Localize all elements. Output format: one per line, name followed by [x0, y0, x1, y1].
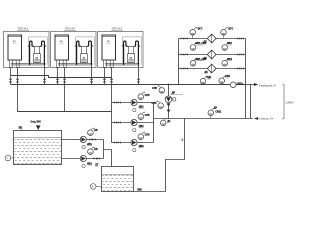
branch2 valves [114, 121, 117, 123]
feed funnel [36, 125, 41, 129]
rail3 outlet valves [237, 67, 240, 69]
svg-text:НВ: НВ [94, 148, 98, 151]
pump ЦВ2 [131, 119, 137, 125]
gauge above rail1 left [192, 35, 194, 39]
svg-text:СУВ: СУВ [152, 87, 157, 90]
gauge on bus right [230, 82, 236, 88]
pump НВ2 suction [62, 158, 81, 160]
tank level gauge [11, 157, 14, 159]
discharge header to small tank [104, 140, 112, 167]
svg-text:2: 2 [181, 138, 183, 142]
gauge on nitrogen line [210, 116, 212, 119]
manifold right riser [245, 39, 247, 119]
gauge above rail3 left [190, 58, 197, 66]
hydrogen outlet arrow [246, 84, 255, 86]
НВ1 discharge [86, 139, 103, 141]
unit1 leg drop B [17, 68, 19, 112]
electrolyzer unit ЭГ2-А3 [98, 32, 144, 68]
analyzer diamond ДК2 [207, 50, 216, 59]
svg-text:СУВ: СУВ [145, 94, 150, 97]
check valve 2 [167, 110, 171, 113]
gauge on bus mid [219, 76, 226, 84]
pump НВ1 [80, 136, 86, 142]
svg-text:1,0МПа: 1,0МПа [285, 103, 294, 105]
big tank [14, 131, 62, 165]
svg-text:СВ2: СВ2 [227, 42, 232, 45]
svg-text:УВ6: УВ6 [137, 189, 142, 192]
gauge above rail1 right [223, 35, 225, 39]
rail 2 [179, 54, 246, 56]
svg-text:НВ2: НВ2 [87, 162, 92, 165]
svg-text:к азоту, Оч: к азоту, Оч [259, 117, 274, 121]
svg-text:СВ11: СВ11 [215, 111, 222, 114]
svg-text:к водороду, М: к водороду, М [259, 84, 276, 88]
rail1 inlet valves [181, 37, 184, 39]
rail 3 [179, 68, 246, 70]
electrolyzer unit ЭГ2-А2 [51, 32, 97, 68]
rail2 inlet valves [181, 53, 184, 55]
unit1 leg drop A [10, 68, 12, 85]
svg-text:ВГС: ВГС [198, 27, 203, 30]
svg-text:ЦВ1: ЦВ1 [139, 105, 144, 108]
gauge above rail3 right [222, 58, 229, 66]
svg-text:ЭКВ, СВ1: ЭКВ, СВ1 [195, 42, 207, 45]
pump branch 3 [112, 142, 154, 144]
gauge on bus left [200, 76, 207, 84]
analyzer diamond ДК1 [207, 34, 216, 43]
small tank [102, 167, 134, 192]
rail 1 [179, 38, 246, 40]
manifold left riser [178, 39, 180, 85]
svg-text:НВ: НВ [94, 129, 98, 132]
svg-text:ВГС: ВГС [228, 27, 233, 30]
rail1 outlet valves [237, 37, 240, 39]
unit2 leg drop B [64, 68, 66, 112]
pressure bracket [282, 84, 284, 119]
unit2 leg drop A [57, 68, 59, 85]
НВ2 discharge [86, 158, 103, 160]
svg-text:СВ8: СВ8 [225, 75, 230, 78]
svg-text:Е: Е [92, 185, 94, 189]
pump branch 1 [112, 102, 154, 104]
unit3 leg drop A [104, 68, 106, 85]
gauge below rail1 left [190, 42, 197, 50]
nitrogen supply line [154, 118, 253, 120]
main gas bus [11, 84, 246, 86]
pump НВ2 [80, 155, 86, 161]
reducer riser [168, 85, 170, 119]
check valve [167, 103, 171, 106]
svg-text:НВ1: НВ1 [87, 143, 92, 146]
pump branch 2 [112, 122, 154, 124]
svg-text:ДР: ДР [172, 91, 176, 94]
condensate header [18, 111, 112, 113]
pressure reducer [165, 96, 172, 103]
pump НВ1 suction [62, 139, 81, 141]
svg-text:ЭГ2-А1: ЭГ2-А1 [18, 27, 29, 31]
small tank gauge [96, 186, 102, 188]
svg-text:ЭГ2-А2: ЭГ2-А2 [65, 27, 76, 31]
svg-text:ЭГ2-А3: ЭГ2-А3 [112, 27, 123, 31]
drain bubble right of reducer [171, 98, 174, 100]
gauge left of reducer top [158, 85, 165, 93]
pump ЦВ1 [131, 99, 137, 105]
unit3 separator drop [138, 65, 140, 85]
svg-text:ЭКВ, СВ3: ЭКВ, СВ3 [195, 58, 207, 61]
nitrogen inlet arrow [254, 117, 258, 120]
gauge left lower [156, 100, 163, 108]
svg-text:СВ10: СВ10 [237, 82, 244, 85]
svg-text:СУВ: СУВ [145, 134, 150, 137]
svg-text:ЦВ3: ЦВ3 [139, 145, 144, 148]
second right riser [250, 85, 252, 119]
flange ticks on downcomers [9, 79, 140, 82]
svg-text:ПД1: ПД1 [207, 76, 212, 79]
unit3 leg drop B / pump suction header [111, 68, 113, 143]
pump discharge header [153, 103, 155, 143]
unit1 separator drop [44, 65, 46, 85]
upper link pipe [11, 76, 112, 78]
rail2 outlet valves [237, 53, 240, 55]
svg-text:ДК: ДК [205, 71, 209, 74]
gauge below rail1 right [222, 42, 229, 50]
svg-text:СУВ: СУВ [145, 114, 150, 117]
gauge below nitrogen line left [160, 118, 167, 126]
branch3 valves [114, 141, 117, 143]
svg-text:СВ4: СВ4 [227, 58, 232, 61]
electrolyzer unit ЭГ2-А1 [4, 32, 50, 68]
svg-text:ДУ: ДУ [214, 107, 218, 110]
unit2 separator drop [91, 65, 93, 85]
svg-text:Д1: Д1 [167, 120, 171, 123]
analyzer diamond ДК3 [207, 64, 216, 73]
branch1 valves [114, 101, 117, 103]
svg-text:Осв, 50С: Осв, 50С [31, 121, 42, 124]
rail3 inlet valves [181, 67, 184, 69]
pump ЦВ3 [131, 139, 137, 145]
return pipe [134, 119, 185, 192]
svg-text:ЦВ2: ЦВ2 [139, 125, 144, 128]
